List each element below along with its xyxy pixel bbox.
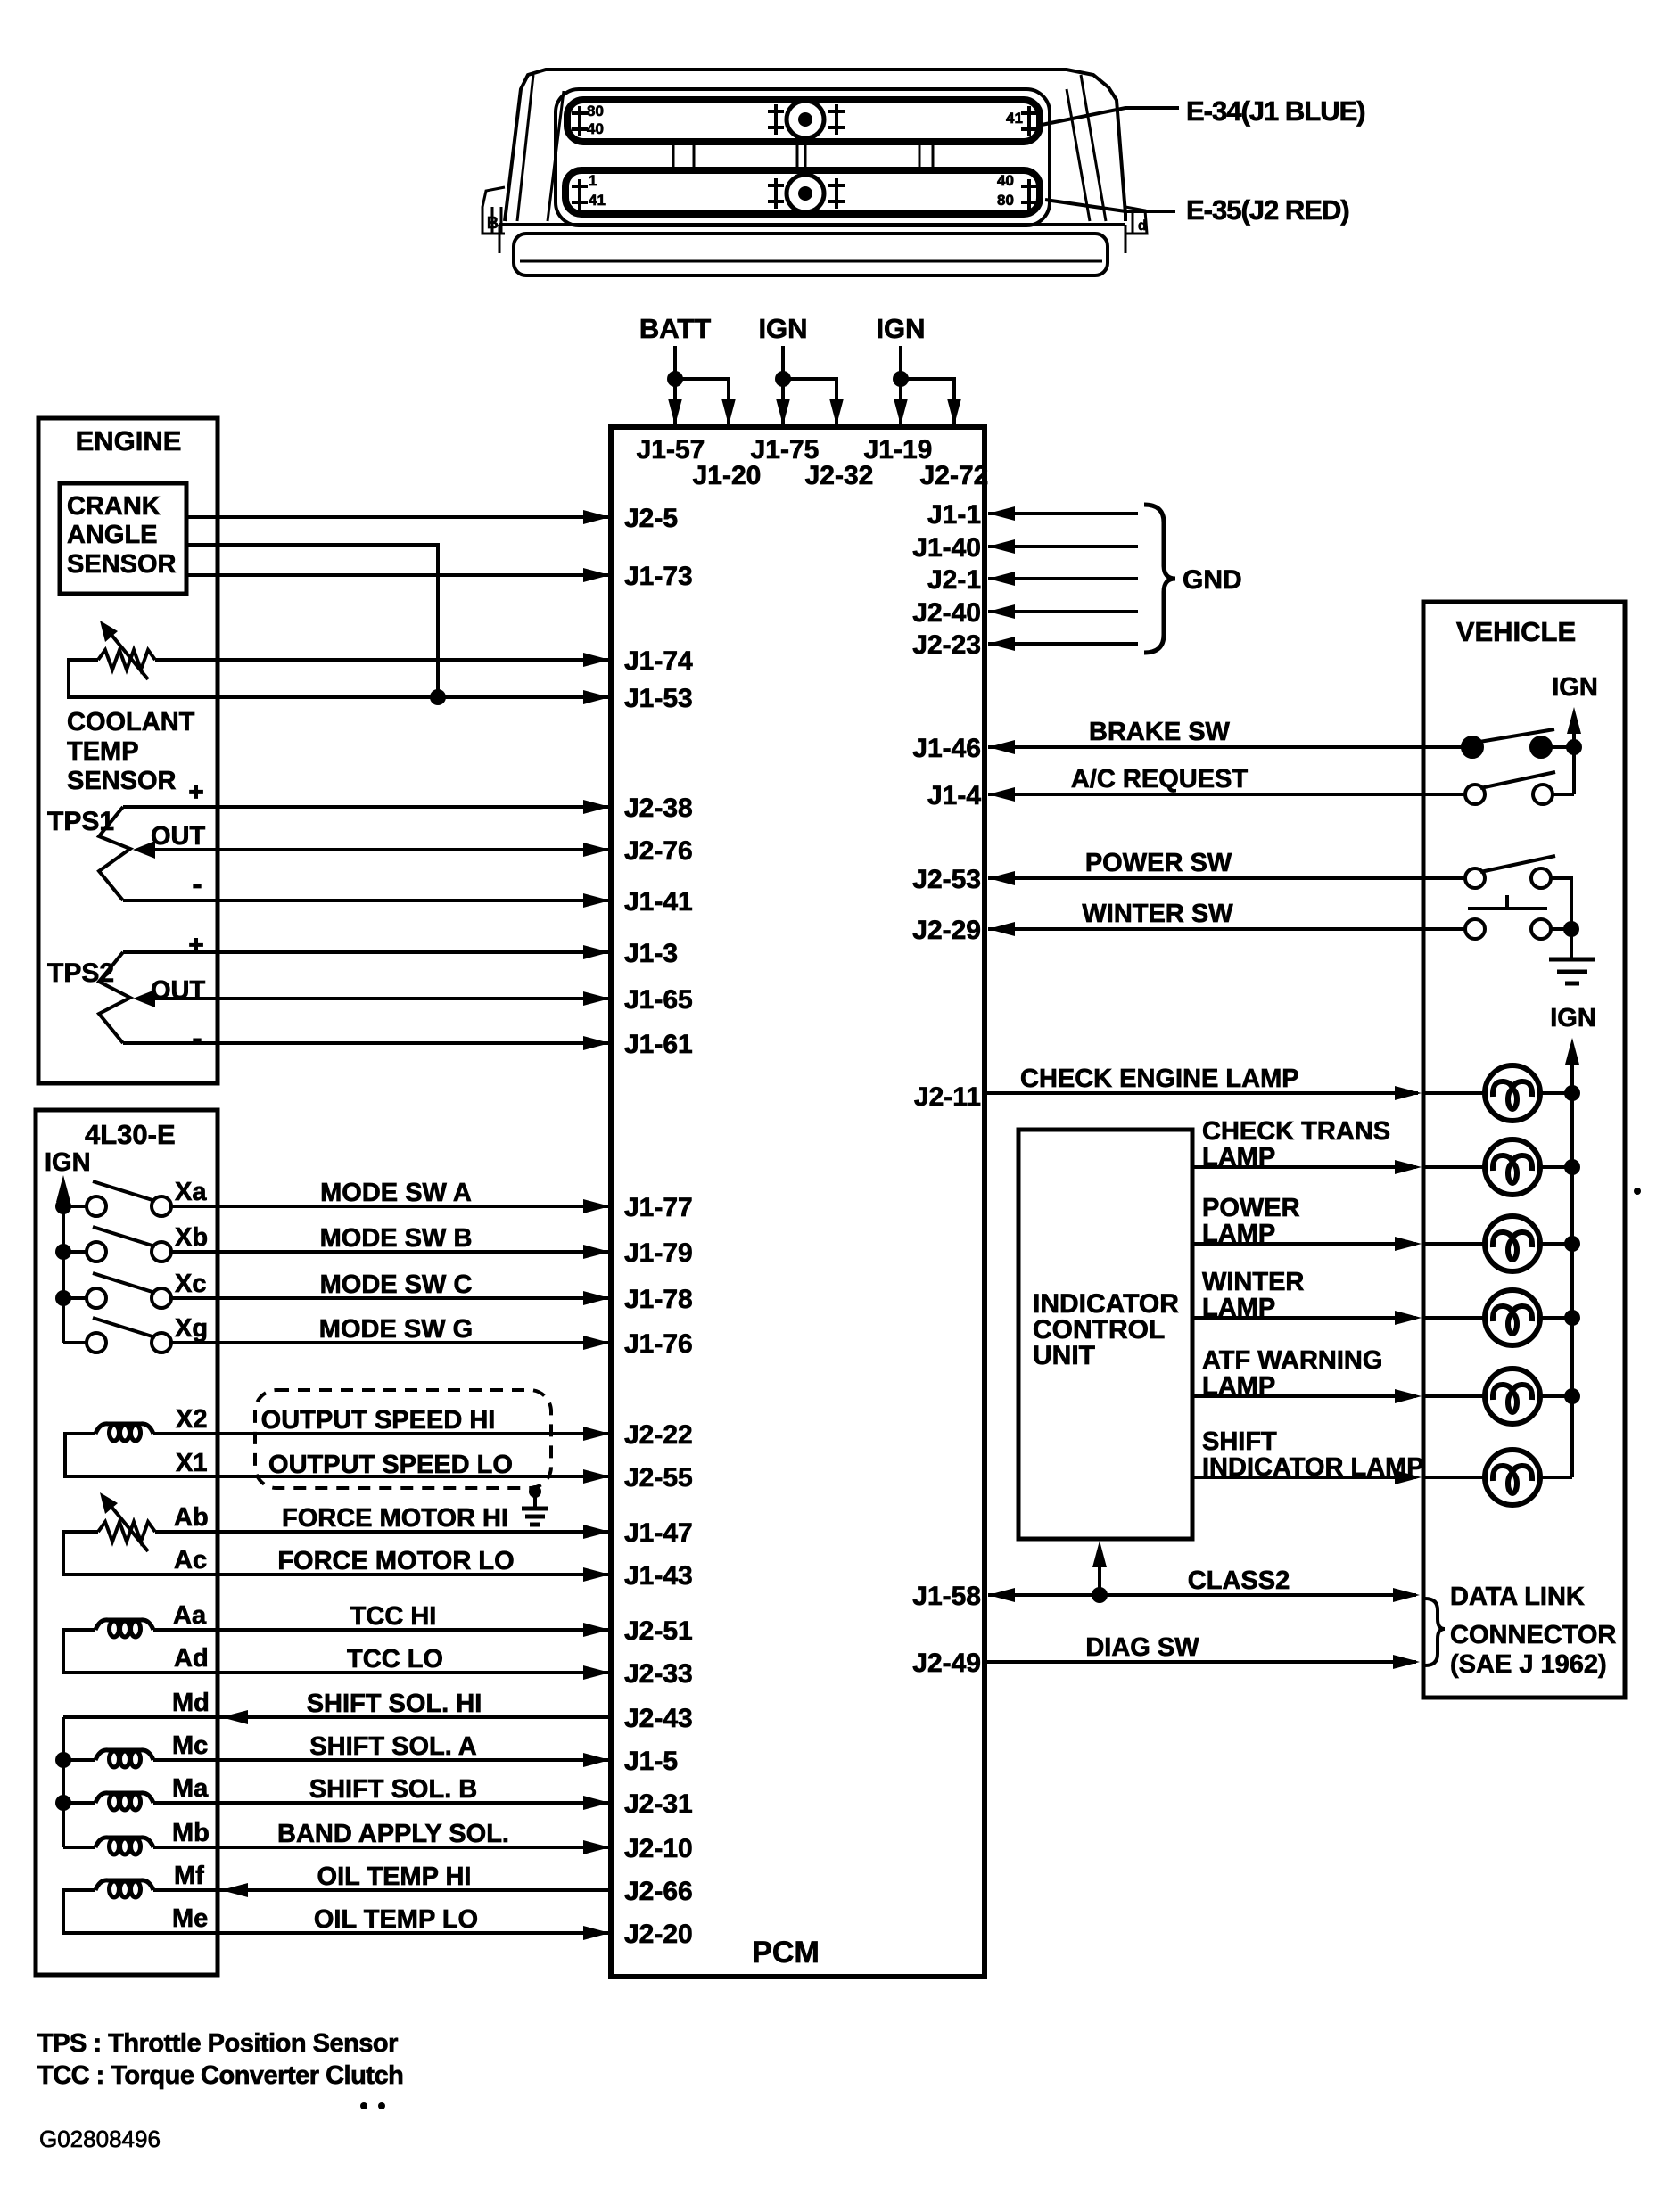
mode switch Xc right contact xyxy=(152,1288,171,1308)
wire vehicle-edge to lamp (CHECK TRANS LAMP) xyxy=(1423,1165,1485,1169)
svg-text:COOLANT: COOLANT xyxy=(67,708,195,736)
IGN arrow (vehicle top) xyxy=(1567,707,1581,734)
wire vehicle-edge to lamp (CHECK ENGINE LAMP) xyxy=(1423,1091,1485,1095)
svg-text:WINTER: WINTER xyxy=(1202,1268,1304,1296)
svg-text:J2-20: J2-20 xyxy=(624,1920,693,1949)
stray scan dots xyxy=(360,1188,1641,2109)
VEHICLE box xyxy=(1423,602,1625,1698)
svg-text:LAMP: LAMP xyxy=(1202,1372,1275,1401)
wire lamp to rail (CHECK TRANS LAMP) xyxy=(1540,1165,1572,1169)
svg-text:J1-43: J1-43 xyxy=(624,1561,693,1591)
wire GND J2-23 xyxy=(988,642,1138,646)
svg-text:41: 41 xyxy=(1006,110,1023,127)
GND brace xyxy=(1144,505,1175,653)
wire J2-66 to Mf (OIL TEMP HI) xyxy=(153,1888,611,1892)
svg-text:E-34(J1 BLUE): E-34(J1 BLUE) xyxy=(1186,95,1365,127)
4L30-E box xyxy=(36,1110,218,1975)
power switch right contact xyxy=(1531,868,1551,888)
shield junction dot xyxy=(529,1485,541,1498)
wire TCC left loop xyxy=(63,1630,608,1673)
lamp POWER LAMP xyxy=(1485,1216,1540,1271)
wire bus to Mb coil xyxy=(63,1846,95,1849)
wire IGN to Xa switch xyxy=(63,1205,87,1208)
svg-text:CRANK: CRANK xyxy=(67,492,161,521)
arrow into J1-61 xyxy=(583,1036,610,1050)
leader line to E-35 xyxy=(1045,200,1175,211)
arrow DIAG SW into data link xyxy=(1393,1655,1420,1669)
connector divider pair c1 xyxy=(919,142,921,170)
wire ICU to WINTER LAMP xyxy=(1192,1316,1416,1320)
wire BATT drop xyxy=(673,346,677,427)
wire GND J1-40 xyxy=(988,545,1138,548)
wire coolant hi to J1-74 xyxy=(155,658,608,662)
svg-text:DATA LINK: DATA LINK xyxy=(1450,1583,1585,1611)
svg-text:SHIFT SOL. A: SHIFT SOL. A xyxy=(309,1732,476,1761)
mode switch Xa lever xyxy=(93,1181,155,1201)
force motor variable resistor xyxy=(98,1492,155,1551)
connector divider pair b2 xyxy=(804,142,807,170)
svg-text:OUT: OUT xyxy=(151,976,206,1005)
svg-text:Ad: Ad xyxy=(174,1644,209,1673)
svg-text:G02808496: G02808496 xyxy=(39,2126,161,2152)
PCM box xyxy=(611,427,985,1977)
A/C switch lever xyxy=(1480,772,1555,788)
wire ICU to CHECK TRANS LAMP xyxy=(1192,1165,1416,1169)
svg-text:CLASS2: CLASS2 xyxy=(1188,1566,1290,1595)
IGN arrow (4L30-E) xyxy=(56,1175,70,1202)
mode switch Xc lever xyxy=(93,1273,155,1293)
svg-text:INDICATOR LAMP: INDICATOR LAMP xyxy=(1202,1453,1424,1482)
lamp CHECK TRANS LAMP xyxy=(1485,1139,1540,1195)
wire Xa to J1-77 (MODE SW) xyxy=(171,1205,608,1208)
svg-text:J2-1: J2-1 xyxy=(927,565,981,595)
svg-text:J1-40: J1-40 xyxy=(912,533,981,563)
wire TPS2 - to J1-61 xyxy=(123,1041,608,1045)
svg-text:Mb: Mb xyxy=(172,1819,210,1847)
svg-text:J2-23: J2-23 xyxy=(912,630,981,660)
connector body right inner slant xyxy=(1081,75,1106,221)
wire TPS2 + to J1-3 xyxy=(123,950,608,954)
wire Mc to J1-5 (SHIFT SOL. A) xyxy=(153,1758,608,1762)
connector right tab line1 xyxy=(1132,210,1134,234)
mode switch Xg lever xyxy=(93,1318,155,1337)
svg-text:MODE SW B: MODE SW B xyxy=(320,1224,473,1253)
arrow into J1-65 xyxy=(583,991,610,1006)
arrow into 4L30-E at Md xyxy=(221,1710,248,1724)
wire BATT branch xyxy=(675,379,729,427)
connector J2 left end tick xyxy=(572,179,588,210)
svg-text:J2-22: J2-22 xyxy=(624,1420,693,1450)
arrow into J2-51 xyxy=(583,1623,610,1637)
wire X2 to J2-22 (OUTPUT SPEED HI) xyxy=(153,1432,608,1435)
arrow into 4L30-E at Mf xyxy=(221,1883,248,1897)
wire vehicle-edge to lamp (SHIFT INDICATOR LAMP) xyxy=(1423,1476,1485,1479)
svg-text:MODE SW A: MODE SW A xyxy=(320,1179,472,1207)
arrow into J1-41 xyxy=(583,893,610,908)
svg-text:ENGINE: ENGINE xyxy=(76,425,182,456)
svg-text:ANGLE: ANGLE xyxy=(67,521,158,549)
wire ICU to ATF WARNING LAMP xyxy=(1192,1394,1416,1398)
connector base bar xyxy=(514,234,1108,275)
svg-text:J1-20: J1-20 xyxy=(693,461,762,490)
connector J1 screw right tick xyxy=(828,104,845,135)
connector right mounting tab xyxy=(1125,207,1147,234)
power switch left contact xyxy=(1465,868,1485,888)
wire IGN1 branch xyxy=(783,379,836,427)
svg-text:J2-49: J2-49 xyxy=(912,1649,981,1678)
lamp ATF WARNING LAMP xyxy=(1485,1369,1540,1424)
mode switch Xg right contact xyxy=(152,1333,171,1353)
connector divider pair b1 xyxy=(796,142,799,170)
svg-text:DIAG SW: DIAG SW xyxy=(1085,1633,1199,1662)
svg-text:40: 40 xyxy=(587,120,604,137)
arrow into J2-31 xyxy=(583,1796,610,1810)
svg-text:Xg: Xg xyxy=(175,1314,208,1343)
junction bus at Ma xyxy=(55,1795,71,1811)
svg-text:Ac: Ac xyxy=(174,1546,207,1575)
wire GND J2-1 xyxy=(988,577,1138,580)
svg-text:J2-76: J2-76 xyxy=(624,836,693,866)
svg-text:LAMP: LAMP xyxy=(1202,1220,1275,1248)
IGN arrow (lamp rail) xyxy=(1565,1038,1579,1065)
oil temp sensor coil (Mf) xyxy=(95,1880,153,1897)
junction CLASS2 to ICU xyxy=(1092,1587,1108,1603)
junction bus at Mc xyxy=(55,1752,71,1768)
svg-text:WINTER SW: WINTER SW xyxy=(1082,900,1233,928)
arrow into J2-23 xyxy=(988,637,1015,651)
wire lamp to rail (POWER LAMP) xyxy=(1540,1242,1572,1246)
shield ground symbol xyxy=(522,1509,548,1525)
wire Ma to J2-31 (SHIFT SOL. B) xyxy=(153,1801,608,1805)
svg-text:J1-47: J1-47 xyxy=(624,1518,693,1548)
mode switch Xb lever xyxy=(93,1227,155,1246)
wire POWER SW xyxy=(988,876,1465,880)
svg-text:VEHICLE: VEHICLE xyxy=(1456,616,1576,647)
brake switch right contact xyxy=(1531,737,1551,757)
svg-text:J2-29: J2-29 xyxy=(912,916,981,945)
svg-text:J2-66: J2-66 xyxy=(624,1877,693,1906)
svg-text:Me: Me xyxy=(172,1904,208,1933)
arrow into vehicle (SHIFT lamp) xyxy=(1395,1470,1422,1484)
svg-text:J1-78: J1-78 xyxy=(624,1285,693,1314)
svg-text:J1-73: J1-73 xyxy=(624,562,693,591)
svg-text:Xb: Xb xyxy=(175,1223,208,1252)
svg-text:41: 41 xyxy=(589,192,606,209)
svg-text:J1-76: J1-76 xyxy=(624,1329,693,1359)
arrow into J1-58 xyxy=(988,1588,1015,1602)
svg-text:J2-31: J2-31 xyxy=(624,1789,693,1819)
ENGINE box xyxy=(38,418,218,1083)
lamp WINTER LAMP xyxy=(1485,1290,1540,1345)
svg-text:TCC HI: TCC HI xyxy=(350,1602,437,1631)
svg-text:LAMP: LAMP xyxy=(1202,1294,1275,1322)
svg-text:UNIT: UNIT xyxy=(1033,1341,1095,1370)
potentiometer TPS2 xyxy=(99,952,155,1043)
wire BRAKE SW xyxy=(988,745,1463,749)
mode switch Xb left contact xyxy=(87,1242,106,1262)
arrow into J2-40 xyxy=(988,604,1015,619)
junction BATT branch xyxy=(667,371,683,387)
IGN riser (brake) xyxy=(1572,727,1576,794)
svg-text:40: 40 xyxy=(997,172,1014,189)
svg-text:+: + xyxy=(188,777,204,807)
lamp CHECK ENGINE LAMP xyxy=(1485,1065,1540,1121)
svg-text:SHIFT SOL. HI: SHIFT SOL. HI xyxy=(307,1690,482,1718)
arrow IGN1 into J1-75 xyxy=(776,399,790,425)
junction crank/coolant node xyxy=(430,689,446,705)
arrow into J1-77 xyxy=(583,1199,610,1213)
IGN lamp rail riser xyxy=(1570,1057,1574,1477)
brake switch left contact xyxy=(1463,737,1482,757)
arrow into J1-5 xyxy=(583,1753,610,1767)
svg-text:J2-10: J2-10 xyxy=(624,1834,693,1863)
svg-text:POWER: POWER xyxy=(1202,1194,1300,1222)
svg-text:TEMP: TEMP xyxy=(67,737,139,766)
junction lamp rail (CHECK TRANS LAMP) xyxy=(1564,1159,1580,1175)
connector base inner line xyxy=(520,260,1102,263)
svg-text:IGN: IGN xyxy=(1550,1004,1596,1032)
svg-text:J1-3: J1-3 xyxy=(624,939,678,968)
arrow into J1-74 xyxy=(583,653,610,667)
wire CHECK ENGINE LAMP xyxy=(985,1091,1418,1095)
connector J1 screw left tick xyxy=(768,104,784,135)
svg-text:J1-46: J1-46 xyxy=(912,734,981,763)
svg-text:J1-77: J1-77 xyxy=(624,1193,693,1222)
svg-text:ATF WARNING: ATF WARNING xyxy=(1202,1346,1382,1375)
connector J2 screw left tick xyxy=(768,178,784,209)
svg-text:MODE SW C: MODE SW C xyxy=(320,1270,473,1299)
svg-text:A/C REQUEST: A/C REQUEST xyxy=(1071,765,1248,794)
svg-text:BRAKE SW: BRAKE SW xyxy=(1089,718,1231,746)
wire coolant lo loop xyxy=(69,660,608,697)
svg-text:E-35(J2 RED): E-35(J2 RED) xyxy=(1186,194,1349,226)
wire force motor left loop xyxy=(63,1532,608,1575)
wire power to winter node xyxy=(1551,878,1571,929)
svg-text:J1-79: J1-79 xyxy=(624,1238,693,1268)
svg-text:Xa: Xa xyxy=(175,1178,207,1206)
arrow into J1-79 xyxy=(583,1245,610,1259)
wire Xb to J1-79 (MODE SW) xyxy=(171,1250,608,1254)
connector body right inner slant 2 xyxy=(1067,89,1090,221)
IGN riser (4L30-E) xyxy=(62,1195,65,1343)
svg-text:OIL TEMP HI: OIL TEMP HI xyxy=(317,1863,472,1891)
junction winter/ground xyxy=(1563,921,1579,937)
arrow CLASS2 into data link xyxy=(1393,1588,1420,1602)
connector base right step xyxy=(1125,225,1127,253)
svg-text:SENSOR: SENSOR xyxy=(67,550,177,579)
svg-text:BATT: BATT xyxy=(639,313,711,344)
wire CLASS2 to ICU riser xyxy=(1098,1560,1101,1595)
wire output speed sensor left loop xyxy=(65,1434,608,1476)
wire vehicle-edge to lamp (WINTER LAMP) xyxy=(1423,1316,1485,1320)
arrow into J1-78 xyxy=(583,1291,610,1305)
arrow into J1-53 xyxy=(583,690,610,704)
svg-text:J2-11: J2-11 xyxy=(914,1082,981,1112)
wire bus to Ma coil xyxy=(63,1801,95,1805)
connector J1 left end tick xyxy=(572,106,588,136)
wire lamp to rail (SHIFT INDICATOR LAMP) xyxy=(1540,1476,1572,1479)
svg-text:J1-5: J1-5 xyxy=(624,1747,678,1776)
wire IGN2 drop xyxy=(899,346,902,427)
wire crank pin2 (to J1-53 node) xyxy=(186,545,438,697)
arrow IGN1 into J2-32 xyxy=(829,399,844,425)
arrow into J1-76 xyxy=(583,1336,610,1350)
arrow into J2-22 xyxy=(583,1427,610,1441)
connector body left inner slant 2 xyxy=(548,91,564,221)
svg-text:IGN: IGN xyxy=(1552,673,1598,702)
connector divider pair c2 xyxy=(932,142,935,170)
wire oil temp left loop xyxy=(63,1890,608,1933)
ground symbol (vehicle) xyxy=(1549,959,1595,983)
wire TPS1 OUT to J2-76 xyxy=(155,848,608,851)
output speed sensor coil X2 xyxy=(95,1424,153,1441)
wire IGN to Xb switch xyxy=(63,1250,87,1254)
svg-text:FORCE MOTOR LO: FORCE MOTOR LO xyxy=(277,1547,514,1575)
wire vehicle-edge to lamp (ATF WARNING LAMP) xyxy=(1423,1394,1485,1398)
wire bus to Mc coil xyxy=(63,1758,95,1762)
lamp SHIFT INDICATOR LAMP xyxy=(1485,1450,1540,1505)
wire lamp to rail (ATF WARNING LAMP) xyxy=(1540,1394,1572,1398)
svg-text:IGN: IGN xyxy=(45,1148,91,1177)
PCM module connector drawing (top view) xyxy=(482,70,1147,275)
svg-text:J1-65: J1-65 xyxy=(624,985,693,1015)
arrow into J2-38 xyxy=(583,800,610,814)
leader line to E-34 xyxy=(1042,108,1179,125)
svg-text:J1-61: J1-61 xyxy=(624,1030,693,1059)
wire IGN to Xg switch xyxy=(63,1341,87,1344)
svg-text:Mc: Mc xyxy=(172,1731,208,1760)
wire crank pin1 to J2-5 xyxy=(186,515,608,519)
svg-text:Mf: Mf xyxy=(174,1862,204,1890)
svg-text:Ab: Ab xyxy=(174,1503,209,1532)
svg-text:J2-32: J2-32 xyxy=(805,461,874,490)
wire ICU to POWER LAMP xyxy=(1192,1242,1416,1246)
arrow into J2-5 xyxy=(583,510,610,524)
arrow into J1-1 xyxy=(988,506,1015,521)
wire IGN1 drop xyxy=(781,346,785,427)
arrow into vehicle (ATF WARNING lamp) xyxy=(1395,1389,1422,1403)
junction IGN2 branch xyxy=(893,371,909,387)
svg-text:J2-53: J2-53 xyxy=(912,865,981,894)
svg-text:X1: X1 xyxy=(176,1449,207,1477)
wire winter to ground node xyxy=(1551,927,1571,931)
junction IGN riser at Xa xyxy=(55,1198,71,1214)
wire crank pin3 to J1-73 xyxy=(186,573,608,577)
wire Aa to J2-51 (TCC HI) xyxy=(153,1628,608,1632)
junction brake/IGN xyxy=(1566,739,1582,755)
arrow into J1-43 xyxy=(583,1567,610,1582)
winter switch right contact xyxy=(1531,919,1551,939)
arrow into J2-33 xyxy=(583,1665,610,1680)
wire A/C to IGN node xyxy=(1553,793,1574,796)
brake switch lever xyxy=(1474,729,1554,743)
svg-text:80: 80 xyxy=(587,103,604,119)
svg-text:80: 80 xyxy=(997,192,1014,209)
svg-text:SHIFT: SHIFT xyxy=(1202,1427,1277,1456)
shift solenoid A coil (Mc) xyxy=(95,1750,153,1767)
connector left tab line1 xyxy=(491,207,494,234)
svg-text:SENSOR: SENSOR xyxy=(67,767,177,795)
connector J2 slot (E-35) xyxy=(565,170,1040,214)
svg-text:-: - xyxy=(192,868,202,901)
svg-text:FORCE MOTOR HI: FORCE MOTOR HI xyxy=(282,1504,508,1533)
svg-text:OUTPUT SPEED HI: OUTPUT SPEED HI xyxy=(261,1406,496,1435)
connector base left step xyxy=(499,225,501,253)
wire IGN to Xc switch xyxy=(63,1296,87,1300)
connector left mounting tab xyxy=(482,187,505,234)
arrow IGN2 into J2-72 xyxy=(947,399,961,425)
arrow into J2-10 xyxy=(583,1840,610,1854)
arrow BATT into J1-20 xyxy=(721,399,736,425)
svg-text:BAND APPLY SOL.: BAND APPLY SOL. xyxy=(277,1820,509,1848)
arrow into J1-40 xyxy=(988,539,1015,554)
arrow into J2-1 xyxy=(988,572,1015,586)
junction IGN riser at Xc xyxy=(55,1290,71,1306)
svg-text:J1-41: J1-41 xyxy=(624,887,693,917)
wire lamp to rail (CHECK ENGINE LAMP) xyxy=(1540,1091,1572,1095)
arrow into J1-3 xyxy=(583,945,610,959)
arrow into J2-20 xyxy=(583,1926,610,1940)
mode switch Xa right contact xyxy=(152,1196,171,1216)
wire brake to IGN node xyxy=(1551,745,1574,749)
dashed box around OUTPUT SPEED labels xyxy=(255,1390,551,1488)
svg-text:IGN: IGN xyxy=(876,313,925,344)
arrow BATT into J1-57 xyxy=(668,399,682,425)
svg-text:X2: X2 xyxy=(176,1405,207,1434)
svg-text:B: B xyxy=(487,214,499,232)
mode switch Xa left contact xyxy=(87,1196,106,1216)
arrow into vehicle (POWER lamp) xyxy=(1395,1237,1422,1251)
shift solenoid bus vertical xyxy=(62,1717,65,1847)
connector face plate xyxy=(556,89,1050,226)
crank angle sensor box xyxy=(60,483,186,594)
svg-text:LAMP: LAMP xyxy=(1202,1143,1275,1172)
wire Mb to J2-10 (BAND APPLY SOL.) xyxy=(153,1846,608,1849)
wire TPS1 - to J1-41 xyxy=(123,899,608,902)
connector J1 right end tick xyxy=(1021,106,1037,136)
data link connector brace xyxy=(1425,1599,1445,1665)
connector J1 screw hole xyxy=(787,101,824,138)
arrow into J1-4 xyxy=(988,787,1015,802)
junction lamp rail (WINTER LAMP) xyxy=(1564,1310,1580,1326)
junction lamp rail (CHECK ENGINE LAMP) xyxy=(1564,1085,1580,1101)
junction IGN1 branch xyxy=(775,371,791,387)
svg-text:PCM: PCM xyxy=(752,1936,820,1969)
winter switch left contact xyxy=(1465,919,1485,939)
svg-text:TCC LO: TCC LO xyxy=(347,1645,443,1673)
wire DIAG SW xyxy=(985,1660,1416,1664)
svg-text:J2-5: J2-5 xyxy=(624,504,678,533)
wire WINTER SW xyxy=(988,927,1465,931)
svg-text:J1-4: J1-4 xyxy=(927,781,981,810)
mode switch Xg left contact xyxy=(87,1333,106,1353)
arrow into ICU xyxy=(1092,1541,1107,1567)
connector body left inner slant xyxy=(517,75,533,221)
wire vehicle-edge to lamp (POWER LAMP) xyxy=(1423,1242,1485,1246)
svg-text:+: + xyxy=(188,931,204,960)
junction IGN riser at Xb xyxy=(55,1244,71,1260)
svg-text:J2-33: J2-33 xyxy=(624,1659,693,1689)
wire Xg to J1-76 (MODE SW) xyxy=(171,1341,608,1344)
svg-text:CHECK TRANS: CHECK TRANS xyxy=(1202,1117,1390,1146)
svg-text:TPS : Throttle Position Sensor: TPS : Throttle Position Sensor xyxy=(37,2029,398,2058)
svg-text:OUT: OUT xyxy=(151,822,206,851)
arrow into J2-55 xyxy=(583,1469,610,1484)
connector base top line xyxy=(499,223,1125,226)
wire GND J2-40 xyxy=(988,610,1138,613)
wire IGN2 branch xyxy=(901,379,954,427)
svg-text:4L30-E: 4L30-E xyxy=(85,1119,176,1150)
